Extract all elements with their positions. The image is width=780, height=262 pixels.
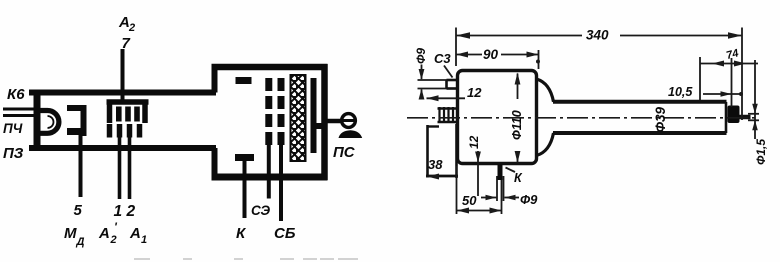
svg-text:Ф9: Ф9	[414, 48, 428, 64]
svg-text:ПЗ: ПЗ	[3, 145, 24, 162]
svg-text:Ф39: Ф39	[653, 106, 668, 132]
svg-text:': '	[114, 220, 118, 234]
svg-text:340: 340	[586, 28, 609, 43]
svg-text:А: А	[98, 225, 110, 242]
svg-text:К6: К6	[7, 86, 25, 103]
svg-text:СБ: СБ	[274, 225, 296, 242]
svg-text:2: 2	[128, 22, 135, 34]
svg-text:СЭ: СЭ	[251, 203, 270, 218]
svg-text:2: 2	[126, 203, 136, 220]
svg-text:10,5: 10,5	[668, 85, 693, 99]
svg-text:90: 90	[483, 47, 499, 62]
svg-text:7: 7	[122, 35, 131, 52]
svg-text:Ф1,5: Ф1,5	[754, 139, 768, 165]
svg-text:74: 74	[725, 47, 740, 62]
svg-text:К: К	[236, 225, 247, 242]
svg-text:5: 5	[74, 202, 83, 219]
svg-text:Ф110: Ф110	[510, 110, 524, 140]
svg-text:Ф9: Ф9	[520, 192, 538, 207]
svg-text:50: 50	[462, 193, 477, 208]
svg-text:12: 12	[467, 85, 482, 100]
svg-text:ПЧ: ПЧ	[3, 121, 23, 136]
svg-text:38: 38	[428, 157, 443, 172]
svg-text:М: М	[64, 225, 77, 242]
svg-text:К: К	[514, 171, 523, 185]
svg-text:А: А	[129, 225, 141, 242]
svg-text:1: 1	[141, 234, 147, 246]
svg-text:2: 2	[110, 234, 117, 246]
svg-text:12: 12	[467, 135, 481, 149]
svg-text:С3: С3	[434, 51, 451, 66]
svg-text:ПС: ПС	[333, 144, 356, 161]
svg-text:Д: Д	[76, 236, 85, 248]
svg-text:1: 1	[114, 203, 123, 220]
